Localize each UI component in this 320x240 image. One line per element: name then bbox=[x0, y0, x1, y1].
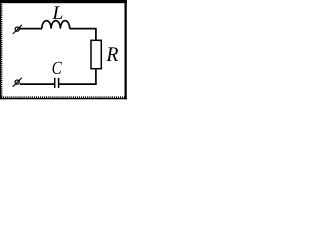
capacitor C (two plates) bbox=[55, 78, 59, 88]
label C bbox=[53, 62, 62, 74]
wire: inductor to top-right corner, down to resistor bbox=[70, 29, 96, 41]
label L bbox=[52, 6, 62, 18]
terminal (input, top) bbox=[13, 25, 22, 34]
frame left serrated edge bbox=[0, 0, 2, 99]
inductor L (3 loops) bbox=[42, 21, 70, 29]
label R bbox=[106, 47, 118, 61]
wire: top terminal to inductor bbox=[19, 28, 42, 30]
frame top band bbox=[0, 0, 127, 3]
wire: resistor bottom to bottom-right corner bbox=[59, 69, 96, 85]
wire: capacitor to bottom terminal bbox=[20, 83, 55, 85]
terminal (input, bottom) bbox=[13, 78, 22, 87]
resistor R (rectangle) bbox=[91, 40, 101, 68]
frame bottom serrated edge bbox=[0, 96, 127, 99]
frame right bar bbox=[125, 0, 127, 99]
